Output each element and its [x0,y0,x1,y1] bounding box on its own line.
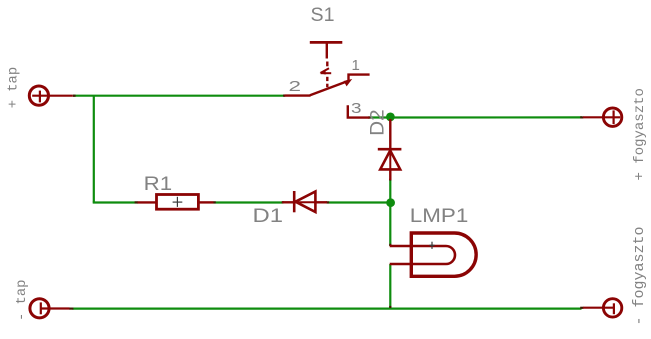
junction dot A [386,113,395,122]
svg-text:1: 1 [352,57,360,74]
svg-text:R1: R1 [144,173,173,195]
D1 cathode bar [293,191,296,212]
lamp LMP1 [390,233,476,276]
wire junction B down to lamp pin 1 [389,203,391,247]
S1 plunger dash 1 [326,62,328,67]
svg-text:- fogyaszto: - fogyaszto [631,226,648,325]
svg-text:+ fogyaszto: + fogyaszto [632,88,648,180]
D1 triangle [296,192,316,213]
resistor R1 [138,195,214,210]
S1 stem [326,44,328,59]
diode D2 [378,119,402,180]
S1 lever [310,81,348,95]
diode D1 [282,191,327,212]
svg-text:3: 3 [351,100,362,117]
wire S1 pin3 to junction A [368,116,390,118]
terminal -tap [30,299,70,318]
D2 triangle [380,151,400,170]
wire R1 to D1 [214,201,284,203]
D2 top lead from junction A [389,119,391,149]
terminal -fogyaszto [583,299,622,317]
svg-text:- tap: - tap [15,280,30,321]
wire D1 to junction B [327,201,391,203]
LMP1 filament / pins [390,246,455,264]
svg-text:2: 2 [289,78,302,95]
wire junction A to +fogyaszto [390,116,582,118]
S1 button cap bar [310,41,343,44]
switch S1 [285,42,370,117]
junction dot B [386,198,395,207]
svg-text:D1: D1 [253,205,284,227]
S1 pin 3 lead [348,105,370,117]
R1 origin cross [173,197,183,207]
terminal +tap [29,86,73,105]
S1 plunger dash 2 [326,77,328,81]
wire joint blends [69,96,583,309]
LMP1 bulb outline [411,233,476,276]
S1 lever arrowhead [344,79,353,86]
S1 pin 1 lead with hook [349,75,370,81]
svg-text:LMP1: LMP1 [410,205,469,227]
wire bottom rail [73,308,582,310]
LMP1 origin cross [429,242,434,249]
S1 plunger dash 3 [326,84,328,88]
wire lamp pin 2 down to bottom rail [389,264,391,309]
D2 bottom lead [389,151,391,170]
S1 pin 2 lead [285,94,311,96]
svg-text:S1: S1 [311,4,335,26]
S1 plunger arrow [321,68,329,73]
wire top rail from +tap to S1 pin2 [73,95,285,97]
wire to R1 left [93,201,138,203]
svg-text:+ tap: + tap [7,67,22,108]
svg-text:D2: D2 [367,109,389,136]
wire D2 anode to junction B [389,179,391,203]
terminal +fogyaszto [583,108,622,126]
D2 cathode bar [378,148,402,151]
wire branch vertical at x=94 [93,96,95,203]
